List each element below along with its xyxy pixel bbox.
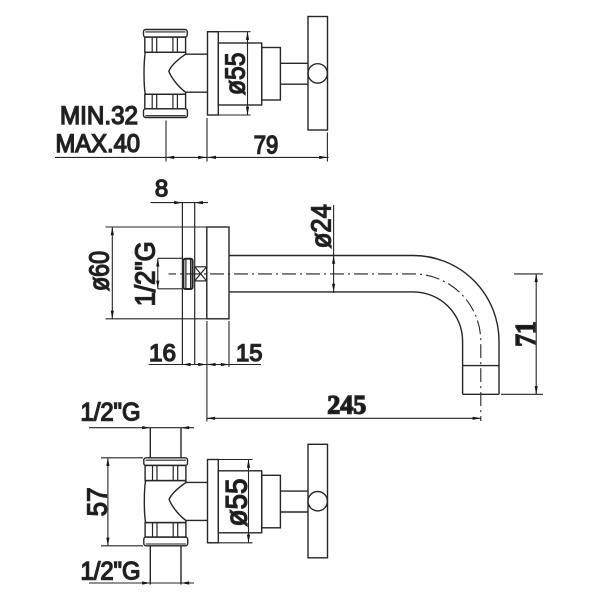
svg-text:71: 71 — [510, 321, 542, 347]
dimension phi55 (top) witness lines — [208, 32, 251, 115]
dimension 16 / 15 — [149, 321, 261, 422]
dimension line MIN/MAX + 79 — [55, 118, 329, 162]
dimension 1/2 (top stub) — [89, 427, 194, 429]
svg-text:MAX.40: MAX.40 — [56, 130, 141, 158]
svg-text:1/2"G: 1/2"G — [81, 399, 141, 427]
svg-text:ø60: ø60 — [84, 251, 115, 291]
spout wall mount (phi60 escutcheon) — [207, 227, 229, 319]
dimension 8 line + arrows — [151, 202, 209, 204]
dimension phi55 (bottom) — [208, 460, 253, 543]
centerline (dash-dot) — [169, 274, 481, 421]
dimension 71 — [501, 274, 543, 394]
dimension phi55 (top) arrows — [246, 32, 249, 40]
escutcheon and handle (top assembly) — [208, 17, 328, 131]
svg-text:1/2"G: 1/2"G — [129, 241, 160, 306]
connector X-box — [195, 267, 207, 281]
thread nipple — [183, 259, 192, 289]
spout tube outline — [229, 256, 499, 395]
dimension phi60 witness + line — [106, 227, 207, 319]
wire bottom pipe stub V2 — [149, 546, 151, 585]
svg-text:245: 245 — [327, 391, 366, 420]
dimension phi24 line — [333, 205, 335, 293]
spout tip bottom — [463, 393, 499, 395]
wire pipe V1 to wall — [186, 53, 208, 55]
valve body V2 — [144, 458, 188, 546]
spout aerator joint — [463, 365, 499, 367]
wire wall section lines — [182, 203, 194, 365]
svg-text:ø55: ø55 — [221, 479, 254, 527]
svg-text:ø24: ø24 — [306, 204, 337, 248]
dimension 1/2 (bottom stub) — [89, 582, 194, 584]
svg-text:16: 16 — [149, 340, 176, 367]
svg-text:ø55: ø55 — [220, 53, 251, 96]
dimension 57 — [101, 458, 143, 546]
svg-text:15: 15 — [236, 340, 263, 367]
dimension 1/2 thread witness + line — [158, 258, 183, 289]
svg-text:MIN.32: MIN.32 — [60, 102, 138, 130]
wire pipe V2 to wall — [186, 481, 208, 483]
svg-text:79: 79 — [254, 132, 279, 160]
dimension 245 — [207, 417, 481, 419]
svg-text:57: 57 — [82, 487, 113, 516]
svg-text:1/2"G: 1/2"G — [81, 558, 141, 586]
svg-text:8: 8 — [155, 176, 168, 203]
valve body V1 (top assembly) — [144, 30, 188, 118]
escutcheon and handle (bottom assembly) — [208, 444, 328, 558]
wire top pipe stub V2 — [149, 428, 151, 458]
